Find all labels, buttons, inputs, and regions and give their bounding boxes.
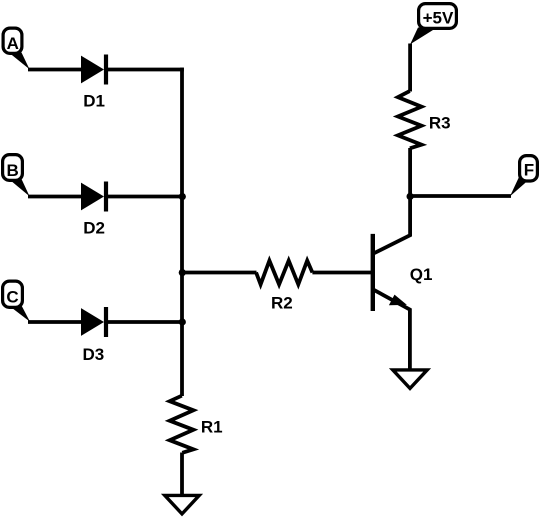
junction bus/R2 <box>179 269 186 276</box>
svg-text:+5V: +5V <box>423 9 454 28</box>
resistor R2 <box>256 261 312 285</box>
junction bus/D3 <box>179 318 186 325</box>
svg-text:A: A <box>7 34 19 53</box>
svg-text:D1: D1 <box>83 91 105 110</box>
ground R1 <box>165 495 199 514</box>
svg-text:C: C <box>6 287 18 306</box>
svg-text:R2: R2 <box>271 294 293 313</box>
junction collector/R3/F <box>407 193 414 200</box>
terminal A <box>3 28 29 69</box>
svg-text:B: B <box>6 161 18 180</box>
diode D1 <box>81 55 106 85</box>
wire R2 to Q1 base <box>312 271 371 275</box>
wire A to D1 anode <box>28 68 82 72</box>
wire D2 cathode to bus <box>106 195 184 199</box>
transistor Q1 <box>373 196 410 370</box>
ground Q1 emitter <box>393 370 427 389</box>
terminal B <box>3 155 30 197</box>
wire node to F <box>409 194 512 198</box>
terminal +5V <box>410 4 456 45</box>
diode D3 <box>81 307 106 337</box>
svg-text:D2: D2 <box>83 219 105 238</box>
svg-text:F: F <box>524 161 534 180</box>
wire C to D3 anode <box>28 320 82 324</box>
svg-text:D3: D3 <box>83 345 105 364</box>
wire D3 cathode to bus <box>106 320 184 324</box>
resistor R3 <box>398 91 422 148</box>
junction bus/D2 <box>179 193 186 200</box>
resistor R1 <box>170 396 194 453</box>
wire vertical bus <box>180 68 184 396</box>
wire +5V to R3 <box>408 44 412 92</box>
svg-text:R1: R1 <box>201 417 223 436</box>
wire node to R2 <box>182 271 257 275</box>
wire R3 to node <box>408 148 412 198</box>
terminal C <box>3 281 30 322</box>
diode D2 <box>81 182 106 212</box>
terminal F <box>510 156 537 197</box>
wire R1 to ground <box>180 453 184 495</box>
wire B to D2 anode <box>28 195 82 199</box>
wire D1 cathode to bus <box>106 68 184 72</box>
svg-text:R3: R3 <box>429 113 451 132</box>
svg-text:Q1: Q1 <box>410 265 433 284</box>
